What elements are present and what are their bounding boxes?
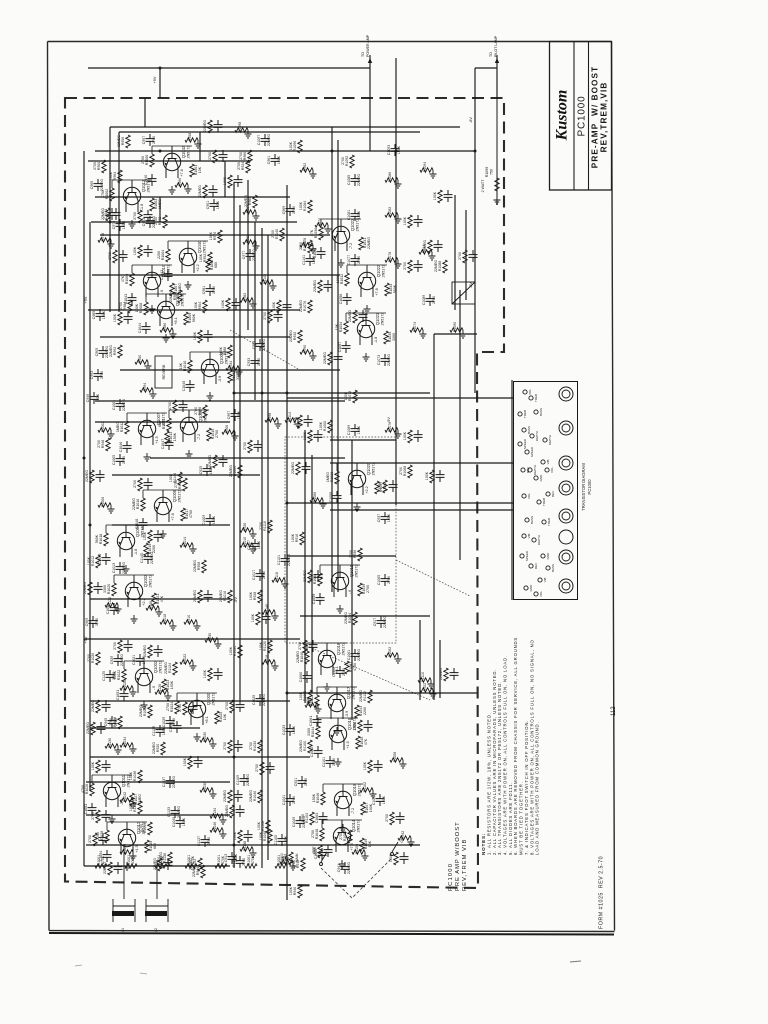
svg-text:2N5172: 2N5172 [352, 687, 356, 700]
svg-text:TREB: TREB [547, 518, 551, 526]
ground [337, 605, 344, 613]
wire [475, 67, 497, 69]
svg-text:R1014: R1014 [162, 419, 166, 430]
svg-text:22MEG: 22MEG [122, 562, 126, 574]
resistor R1012 [87, 555, 100, 568]
resistor R1002 [101, 188, 114, 201]
svg-text:C981: C981 [202, 286, 206, 294]
svg-text:2N5172: 2N5172 [382, 265, 386, 278]
resistor R1019 [144, 543, 156, 556]
wire [189, 352, 191, 360]
resistor R939 [363, 760, 383, 773]
wire [459, 290, 461, 560]
svg-text:C1101: C1101 [322, 757, 326, 767]
svg-text:22MEG: 22MEG [244, 195, 248, 207]
resistor R954 [243, 205, 260, 220]
resistor R930 [205, 633, 222, 648]
svg-text:GND: GND [539, 474, 543, 482]
svg-text:R1132: R1132 [133, 802, 137, 812]
svg-text:C917: C917 [373, 618, 377, 626]
wire [287, 692, 477, 694]
svg-text:TREB: TREB [542, 498, 546, 506]
svg-text:R1072: R1072 [348, 391, 352, 401]
svg-text:-1.8: -1.8 [134, 549, 138, 555]
resistor R995 [168, 400, 188, 413]
resistor R964 [109, 170, 122, 183]
svg-text:NOTES:: NOTES: [481, 833, 486, 855]
svg-text:100K: 100K [284, 835, 288, 844]
transistor Q1000 [188, 692, 215, 725]
svg-text:22MEG: 22MEG [347, 862, 351, 874]
arrow TO PILOT LAMP [495, 58, 499, 63]
capacitor C1054 [99, 850, 112, 862]
resistor R1082 [385, 207, 402, 223]
transistor Q1008 [201, 351, 228, 384]
transistor Q1010 [143, 264, 170, 297]
capacitor C1052 [169, 721, 182, 733]
transistor Q1003 [125, 574, 152, 607]
panel lug 5 [525, 450, 529, 454]
svg-text:2700: 2700 [263, 312, 267, 320]
capacitor C1121 [277, 554, 291, 566]
wire [496, 98, 498, 205]
svg-text:R1008: R1008 [139, 303, 143, 314]
resistor R1020 [103, 583, 116, 596]
wire [345, 313, 347, 321]
svg-text:100K: 100K [303, 431, 307, 440]
wire [114, 574, 154, 576]
svg-text:R920: R920 [156, 744, 160, 752]
svg-text:2700: 2700 [166, 703, 170, 711]
page border [48, 42, 615, 932]
svg-text:#1: #1 [121, 928, 125, 932]
svg-text:REVERB: REVERB [162, 364, 166, 379]
resistor R1122 [105, 597, 122, 613]
resistor R1014 [158, 418, 171, 431]
wire [346, 265, 348, 273]
svg-text:C1063: C1063 [315, 813, 319, 824]
svg-text:R1100: R1100 [303, 741, 307, 751]
panel lug 11 [525, 518, 529, 522]
svg-text:REV,TREM VIB: REV,TREM VIB [462, 839, 468, 891]
svg-text:R1108: R1108 [261, 821, 265, 831]
wire [100, 336, 290, 338]
svg-text:C1053: C1053 [84, 804, 88, 815]
ground [124, 862, 131, 870]
svg-text:DEPTH: DEPTH [537, 535, 541, 545]
svg-text:22MEG: 22MEG [299, 300, 303, 312]
scan speck [570, 961, 581, 962]
wire [127, 412, 167, 414]
svg-text:22MEG: 22MEG [249, 790, 253, 802]
svg-text:-9V: -9V [234, 597, 238, 603]
svg-text:-7.2: -7.2 [349, 243, 353, 249]
svg-text:2700: 2700 [88, 835, 92, 843]
svg-text:470K: 470K [251, 855, 255, 864]
svg-text:-3.9: -3.9 [218, 376, 222, 382]
resistor R915 [425, 470, 445, 483]
svg-text:C1061: C1061 [309, 716, 313, 727]
resistor R1003 [150, 198, 162, 211]
wire [92, 274, 340, 276]
svg-text:Q1004: Q1004 [135, 524, 140, 537]
svg-text:R968: R968 [248, 197, 252, 205]
svg-text:R1086: R1086 [388, 172, 392, 182]
resistor R1011 [143, 530, 163, 543]
svg-text:2700: 2700 [113, 642, 117, 650]
ground [194, 733, 201, 741]
panel knob 2 [559, 421, 573, 435]
svg-text:R1098: R1098 [238, 122, 242, 132]
svg-text:C1077: C1077 [347, 255, 351, 265]
resistor R948 [97, 438, 110, 451]
svg-text:2N5172: 2N5172 [149, 575, 153, 588]
resistor R1038 [309, 573, 322, 586]
svg-text:22MEG: 22MEG [303, 570, 307, 582]
svg-text:BASS: BASS [551, 564, 555, 572]
transistor Q1013 [123, 179, 150, 212]
svg-text:22MEG: 22MEG [267, 134, 271, 146]
resistor [125, 855, 137, 868]
svg-text:R1056: R1056 [343, 831, 347, 841]
resistor R932 [289, 330, 302, 343]
resistor R1017 [181, 508, 193, 521]
resistor R1004 [229, 465, 242, 478]
svg-text:2700: 2700 [97, 440, 101, 448]
wire [316, 687, 318, 695]
svg-text:R1060: R1060 [303, 691, 307, 701]
svg-text:Q1040: Q1040 [197, 240, 202, 253]
svg-text:+9V: +9V [84, 296, 88, 303]
svg-text:1MEG: 1MEG [326, 472, 330, 482]
resistor R1136 [159, 852, 172, 865]
resistor R1052 [189, 858, 202, 871]
svg-text:Q1021: Q1021 [375, 312, 380, 325]
svg-text:2N5172: 2N5172 [167, 265, 171, 278]
wire [190, 351, 230, 353]
svg-text:2N5172: 2N5172 [187, 146, 191, 159]
svg-text:R980: R980 [173, 292, 177, 300]
svg-text:C1005: C1005 [112, 455, 116, 465]
svg-text:R1022: R1022 [117, 670, 121, 681]
svg-text:SPEED: SPEED [530, 446, 534, 457]
wire [151, 146, 153, 154]
svg-text:Q1003: Q1003 [143, 574, 148, 587]
svg-text:10K: 10K [179, 362, 183, 369]
svg-text:C1069: C1069 [347, 425, 351, 435]
jack wires [123, 845, 125, 899]
resistor R1028 [139, 705, 152, 718]
svg-text:R1142: R1142 [263, 274, 267, 284]
svg-text:22MEG: 22MEG [117, 135, 121, 147]
wire [318, 717, 358, 719]
resistor R1019 [113, 640, 133, 653]
resistor R1007 [133, 478, 153, 491]
wire [124, 660, 164, 662]
svg-text:R1010: R1010 [183, 361, 187, 372]
svg-text:PC1000: PC1000 [587, 479, 592, 495]
capacitor C1047 [161, 438, 174, 450]
resistor R1022 [180, 654, 197, 670]
svg-text:2N5172: 2N5172 [203, 241, 207, 254]
svg-text:22MEG: 22MEG [262, 694, 266, 706]
svg-text:100K: 100K [259, 641, 263, 650]
resistor R923 [108, 250, 128, 263]
svg-text:R1078: R1078 [388, 252, 392, 262]
capacitor C1043 [124, 293, 137, 305]
svg-text:R904: R904 [198, 302, 202, 310]
svg-text:Kustom: Kustom [554, 90, 571, 142]
svg-text:+9V: +9V [153, 76, 157, 83]
svg-text:C941: C941 [337, 864, 341, 872]
resistor R1107 [389, 852, 409, 865]
svg-text:2N5172: 2N5172 [342, 643, 346, 656]
reverb tank connector [452, 282, 475, 304]
wire [95, 196, 290, 198]
panel lug 1 [523, 390, 527, 394]
resistor R906 [222, 425, 239, 440]
resistor R902 [243, 235, 260, 250]
svg-text:2700: 2700 [100, 371, 104, 379]
resistor R1014 [180, 537, 197, 553]
svg-text:R956: R956 [121, 137, 125, 145]
resistor R903 [272, 300, 292, 313]
svg-text:R1006: R1006 [101, 497, 105, 507]
svg-text:R972: R972 [158, 217, 162, 225]
panel knob 6 [559, 530, 573, 544]
svg-text:2700: 2700 [194, 407, 198, 415]
svg-text:22MEG: 22MEG [91, 700, 95, 712]
svg-text:100K: 100K [143, 531, 147, 540]
svg-text:22MEG: 22MEG [139, 705, 143, 717]
svg-text:Q1022: Q1022 [376, 264, 381, 277]
svg-text:100K: 100K [133, 246, 137, 255]
panel knob 8 [559, 579, 573, 593]
capacitor C1113 [332, 666, 346, 678]
resistor R1118 [272, 572, 289, 588]
wire [86, 814, 230, 816]
svg-text:C1141: C1141 [302, 255, 306, 265]
resistor R1054 [280, 854, 297, 870]
svg-text:1. ALL RESISTORS ARE 1/2W, 10%: 1. ALL RESISTORS ARE 1/2W, 10%, UNLESS N… [487, 712, 492, 855]
wire [320, 219, 322, 227]
svg-text:22MEG: 22MEG [132, 498, 136, 510]
resistor R972 [154, 215, 167, 228]
panel lug 27 [546, 566, 550, 570]
capacitor C1129 [152, 725, 166, 737]
svg-text:R1012: R1012 [91, 556, 95, 566]
svg-text:22MEG: 22MEG [291, 462, 295, 474]
svg-text:2700: 2700 [349, 550, 353, 558]
capacitor C1125 [102, 670, 116, 682]
potentiometer P1000 [280, 852, 299, 865]
svg-text:3300: 3300 [392, 333, 396, 341]
wire [254, 222, 256, 400]
svg-text:C1037: C1037 [162, 777, 166, 787]
svg-text:VIB: VIB [527, 534, 531, 539]
svg-text:22MEG: 22MEG [203, 120, 207, 132]
svg-text:R900: R900 [97, 162, 101, 170]
resistor R1099 [203, 120, 223, 133]
svg-text:R908: R908 [197, 562, 201, 570]
svg-text:2200: 2200 [363, 707, 367, 715]
svg-text:560K: 560K [393, 284, 397, 293]
svg-text:100K: 100K [403, 431, 407, 440]
svg-text:100K: 100K [403, 216, 407, 225]
svg-text:R1040: R1040 [253, 791, 257, 801]
wire [233, 182, 235, 868]
resistor R1024 [166, 701, 179, 714]
wire [119, 131, 420, 133]
resistor R1024 [229, 645, 242, 658]
capacitor C957 [142, 134, 156, 146]
svg-text:R958: R958 [188, 133, 192, 141]
svg-text:C1053: C1053 [232, 857, 236, 867]
wire [369, 55, 371, 151]
svg-text:Q1013: Q1013 [141, 179, 146, 192]
svg-text:R910: R910 [187, 615, 191, 623]
resistor R1095 [433, 190, 453, 203]
svg-text:22MEG: 22MEG [219, 590, 223, 602]
svg-text:R1028: R1028 [143, 706, 147, 716]
svg-text:R994: R994 [143, 383, 147, 391]
svg-text:100K: 100K [199, 253, 203, 262]
wire [319, 565, 321, 573]
svg-text:22MEG: 22MEG [208, 455, 212, 467]
svg-text:C973: C973 [112, 221, 116, 229]
resistor R1032 [249, 740, 262, 753]
svg-text:R1000: R1000 [145, 155, 149, 166]
tremolo dotted enclosure [285, 437, 396, 643]
svg-text:C1001: C1001 [112, 400, 116, 410]
svg-text:2700: 2700 [298, 642, 302, 650]
svg-text:C949: C949 [86, 394, 90, 402]
svg-text:5. ALL DIODES ARE FD111.: 5. ALL DIODES ARE FD111. [508, 782, 513, 855]
svg-text:112: 112 [611, 706, 617, 716]
resistor R975 [133, 245, 153, 258]
panel knob 4 [559, 481, 573, 495]
resistor R1039 [358, 583, 370, 596]
svg-text:R1046: R1046 [316, 793, 320, 804]
svg-text:R948: R948 [101, 440, 105, 448]
svg-text:R986: R986 [163, 323, 167, 331]
svg-text:R1146: R1146 [265, 604, 269, 614]
svg-text:R932: R932 [293, 332, 297, 340]
svg-text:100K: 100K [289, 886, 293, 895]
svg-text:R1030: R1030 [203, 732, 207, 742]
svg-text:R984: R984 [123, 302, 127, 310]
svg-text:C977: C977 [242, 251, 246, 259]
svg-text:100K: 100K [122, 220, 126, 229]
panel lug 16 [524, 586, 528, 590]
svg-text:2 WATT: 2 WATT [481, 179, 485, 193]
svg-text:22MEG: 22MEG [193, 590, 197, 602]
resistor R1084 [299, 200, 312, 213]
resistor R958 [185, 133, 202, 148]
resistor R940 [289, 885, 302, 898]
resistor R1011 [228, 370, 240, 383]
svg-text:R1104: R1104 [305, 813, 309, 823]
resistor R1100 [299, 740, 312, 753]
resistor R1004 [157, 249, 170, 262]
svg-text:C901: C901 [206, 201, 210, 209]
svg-text:MAIN: MAIN [295, 853, 299, 862]
wire [88, 67, 370, 69]
svg-text:R964: R964 [113, 172, 117, 180]
svg-text:2700: 2700 [403, 262, 407, 270]
resistor R1026 [81, 783, 94, 796]
svg-text:C933: C933 [247, 358, 251, 366]
svg-text:2N5172: 2N5172 [372, 463, 376, 476]
capacitor C1081 [347, 209, 361, 221]
panel lug 7 [541, 460, 545, 464]
svg-text:22MEG: 22MEG [164, 662, 168, 674]
svg-text:22MEG: 22MEG [383, 616, 387, 628]
resistor R1147 [291, 462, 311, 475]
svg-text:R1058: R1058 [393, 752, 397, 762]
resistor R1046 [210, 822, 227, 838]
svg-text:2700: 2700 [207, 837, 211, 845]
wire [126, 413, 128, 421]
svg-text:+2.2: +2.2 [196, 264, 200, 271]
resistor R1041 [345, 661, 357, 674]
svg-text:R926: R926 [243, 523, 247, 531]
transistor Q1004 [117, 524, 144, 557]
svg-text:R902: R902 [246, 235, 250, 243]
svg-text:R1066: R1066 [313, 492, 317, 502]
capacitor C1060 [299, 671, 312, 683]
svg-text:R1034: R1034 [123, 737, 127, 747]
wire [337, 140, 339, 592]
resistor R1132 [129, 801, 142, 814]
svg-text:22MEG: 22MEG [439, 668, 443, 680]
svg-text:47K: 47K [121, 275, 125, 282]
ground [169, 186, 176, 194]
wire [351, 440, 353, 720]
svg-text:C961: C961 [267, 156, 271, 164]
svg-text:C1125: C1125 [102, 671, 106, 681]
svg-text:22MEG: 22MEG [85, 470, 89, 482]
capacitor C1037 [162, 776, 176, 788]
capacitor C933 [247, 356, 261, 368]
svg-text:100K: 100K [382, 795, 386, 804]
resistor [185, 855, 197, 868]
svg-text:R930: R930 [208, 633, 212, 641]
input jack #1 [112, 899, 135, 932]
wire [131, 265, 133, 273]
wire [199, 132, 201, 161]
ground [363, 353, 370, 361]
wire [304, 430, 306, 703]
svg-text:2700: 2700 [154, 217, 158, 225]
resistor R1018 [160, 614, 177, 630]
svg-text:R934: R934 [229, 361, 233, 369]
svg-text:22MEG: 22MEG [101, 208, 105, 220]
resistor R1028 [96, 830, 109, 843]
resistor R1131 [183, 756, 203, 769]
svg-text:C1046: C1046 [119, 442, 123, 453]
svg-text:C997: C997 [227, 411, 231, 419]
svg-text:100K: 100K [135, 303, 139, 312]
svg-text:R1030: R1030 [314, 228, 318, 239]
wire [330, 509, 513, 511]
panel lug 23 [522, 534, 526, 538]
svg-text:C993: C993 [90, 371, 94, 379]
wire [90, 598, 230, 600]
wire [88, 160, 250, 162]
capacitor C1061 [347, 649, 361, 661]
resistor R1036 [326, 471, 339, 484]
